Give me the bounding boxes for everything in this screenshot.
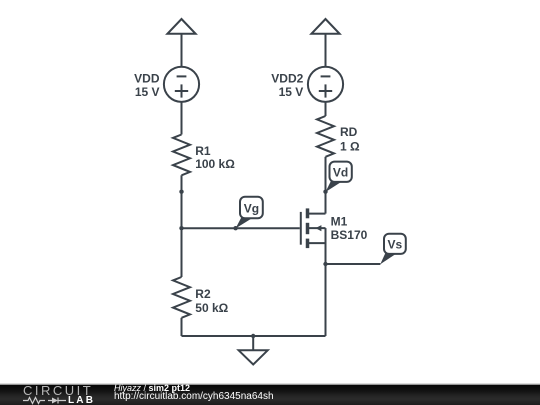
label M1 value (331, 215, 368, 243)
node Vg (236, 197, 263, 229)
svg-text:R2: R2 (195, 287, 211, 301)
wire Vs stub (326, 263, 381, 265)
junction Vs (323, 262, 327, 266)
svg-text:Vg: Vg (244, 202, 259, 216)
svg-text:15 V: 15 V (279, 85, 304, 99)
svg-text:VDD2: VDD2 (271, 71, 303, 85)
svg-text:Vd: Vd (333, 166, 348, 180)
wire VDD2 source to RD (325, 102, 327, 116)
wire VDD arrow to source (181, 34, 183, 67)
junction Vg (233, 226, 237, 230)
svg-text:50 kΩ: 50 kΩ (195, 301, 228, 315)
ground (239, 336, 268, 365)
label RD value (340, 125, 360, 153)
resistor RD (317, 116, 334, 157)
junction ground (251, 334, 255, 338)
svg-text:1 Ω: 1 Ω (340, 139, 360, 153)
power arrow VDD (167, 19, 195, 34)
wire source down (325, 228, 327, 336)
junction Vd (323, 190, 327, 194)
label VDD2 value (271, 71, 303, 99)
resistor R1 (173, 135, 190, 176)
svg-text:M1: M1 (331, 215, 348, 229)
svg-text:100 kΩ: 100 kΩ (195, 157, 235, 171)
voltage source VDD (164, 67, 199, 102)
svg-text:VDD: VDD (134, 71, 160, 85)
wire gate (182, 227, 300, 229)
label R2 value (195, 287, 228, 315)
svg-text:RD: RD (340, 125, 358, 139)
voltage source VDD2 (308, 67, 343, 102)
wire R1 to R2 (181, 175, 183, 277)
svg-text:BS170: BS170 (331, 228, 368, 242)
svg-text:R1: R1 (195, 144, 211, 158)
node Vs (380, 234, 406, 265)
wire RD to drain (325, 157, 327, 214)
wire bottom rail (182, 335, 326, 337)
junction gate tee (179, 226, 183, 230)
svg-text:Vs: Vs (388, 238, 403, 252)
wire R2 to bottom rail (181, 318, 183, 336)
label R1 value (195, 144, 235, 171)
power arrow VDD2 (311, 19, 339, 34)
label VDD value (134, 71, 160, 99)
junction R1 bottom (179, 190, 183, 194)
transistor M1 (301, 208, 326, 248)
svg-text:15 V: 15 V (135, 85, 160, 99)
node Vd (326, 162, 352, 192)
resistor R2 (173, 277, 190, 318)
wire VDD source to R1 (181, 102, 183, 135)
wire VDD2 arrow to source (325, 34, 327, 67)
